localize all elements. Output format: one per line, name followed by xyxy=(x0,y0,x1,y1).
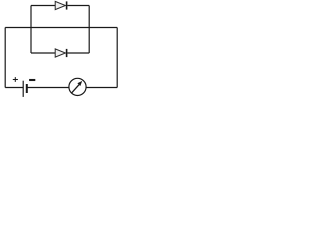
ammeter A1 needle xyxy=(71,81,82,93)
diode D2 cathode bar xyxy=(66,49,68,57)
wire bottom left segment xyxy=(5,87,23,89)
wire top branch right segment xyxy=(67,5,89,7)
battery BT1 plus label xyxy=(13,77,18,82)
wire bottom right segment xyxy=(86,87,117,89)
wire left stub xyxy=(30,6,32,54)
wire lower branch right segment xyxy=(67,52,89,54)
wire left side xyxy=(4,28,6,88)
battery BT1 positive long plate xyxy=(22,81,24,97)
wire right side xyxy=(116,28,118,88)
wire bottom middle segment xyxy=(27,87,69,89)
diode D2 triangle xyxy=(55,49,65,57)
wire top branch left segment xyxy=(31,5,55,7)
wire lower branch left segment xyxy=(31,52,55,54)
diode D1 triangle xyxy=(55,1,65,9)
battery BT1 negative short plate xyxy=(26,84,28,93)
wire middle branch xyxy=(5,27,117,29)
diode D1 cathode bar xyxy=(66,1,68,9)
ammeter A1 body circle xyxy=(69,78,86,95)
battery BT1 minus label xyxy=(29,79,35,81)
wire right stub xyxy=(88,6,90,54)
